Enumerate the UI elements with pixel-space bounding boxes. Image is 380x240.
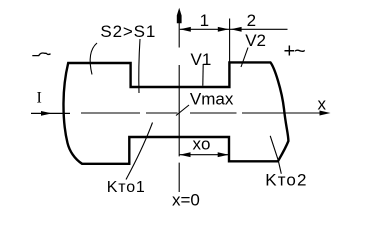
svg-text:2: 2: [247, 11, 256, 30]
svg-text:Kто1: Kто1: [107, 179, 146, 196]
dimension line 1-2: [180, 28, 288, 30]
source tilde left: [32, 53, 50, 56]
V axis arrow: [177, 8, 182, 23]
svg-text:S2>S1: S2>S1: [100, 22, 156, 41]
svg-text:xo: xo: [193, 135, 211, 154]
svg-text:I: I: [37, 90, 42, 107]
current arrow I head: [41, 111, 52, 116]
xo arrow right: [218, 152, 229, 157]
current arrow I line: [31, 112, 70, 114]
x axis center line: [81, 112, 321, 114]
extension line 2: [229, 19, 231, 62]
dim arrow left of 2: [231, 27, 242, 32]
leader from S2>S1 to step: [139, 39, 140, 93]
dim arrow right of 1: [218, 27, 229, 32]
waveguide body outline: [63, 62, 288, 163]
xo dimension line: [180, 154, 230, 156]
svg-text:V1: V1: [191, 50, 212, 69]
leader from Kto2: [270, 136, 281, 174]
leader from S2>S1 to left section: [90, 43, 97, 75]
V axis line x=0: [178, 23, 180, 192]
svg-text:x=0: x=0: [172, 191, 200, 210]
svg-text:1: 1: [200, 11, 209, 30]
svg-text:Vmax: Vmax: [190, 90, 234, 109]
leader from V1: [202, 64, 204, 86]
svg-text:+~: +~: [284, 41, 305, 63]
x axis arrow: [320, 111, 331, 116]
dim arrow left of 1: [180, 27, 191, 32]
xo arrow left: [180, 152, 191, 157]
svg-text:V2: V2: [245, 31, 266, 50]
leader from V2: [241, 48, 248, 68]
leader from Vmax: [176, 105, 189, 116]
leader from Kto1: [126, 123, 153, 180]
svg-text:x: x: [318, 95, 327, 114]
svg-text:Kто2: Kто2: [265, 170, 307, 189]
